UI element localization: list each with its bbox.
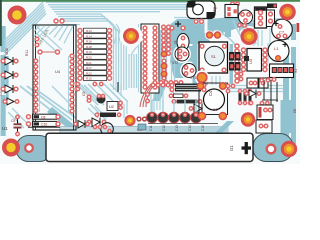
svg-text:C9: C9 xyxy=(82,92,86,96)
svg-text:R11: R11 xyxy=(25,50,29,56)
svg-text:x1: x1 xyxy=(173,40,177,44)
svg-text:R14: R14 xyxy=(86,34,92,38)
svg-text:R13: R13 xyxy=(86,29,92,33)
svg-text:C13: C13 xyxy=(175,125,179,131)
svg-text:VT2: VT2 xyxy=(172,61,178,65)
svg-text:C11: C11 xyxy=(149,125,153,131)
svg-text:R17: R17 xyxy=(86,66,92,70)
svg-text:C6: C6 xyxy=(293,109,297,113)
svg-text:VD8: VD8 xyxy=(5,48,9,55)
svg-text:U4: U4 xyxy=(55,69,61,74)
svg-text:R21: R21 xyxy=(86,61,92,65)
svg-text:R15: R15 xyxy=(86,77,92,81)
svg-text:C4: C4 xyxy=(208,90,213,96)
svg-text:C8: C8 xyxy=(41,115,45,119)
svg-text:R20: R20 xyxy=(86,56,92,60)
svg-text:U1: U1 xyxy=(2,126,8,131)
svg-text:R22: R22 xyxy=(86,71,92,75)
svg-text:VT3: VT3 xyxy=(190,76,196,80)
svg-text:U2: U2 xyxy=(109,105,114,109)
svg-text:R19: R19 xyxy=(86,50,92,54)
svg-text:L1: L1 xyxy=(274,46,279,51)
svg-text:C5: C5 xyxy=(11,119,15,123)
svg-text:D3: D3 xyxy=(213,108,217,112)
svg-text:X1: X1 xyxy=(294,69,298,73)
svg-text:R18: R18 xyxy=(86,45,92,49)
svg-text:G1: G1 xyxy=(229,145,234,151)
svg-text:ZQ: ZQ xyxy=(213,7,217,12)
svg-text:R16: R16 xyxy=(86,40,92,44)
svg-text:C12: C12 xyxy=(162,125,166,131)
svg-text:S1: S1 xyxy=(211,54,217,59)
svg-text:C14: C14 xyxy=(188,125,192,131)
svg-text:C10: C10 xyxy=(41,123,47,127)
svg-text:C15: C15 xyxy=(201,125,205,131)
svg-text:T2: T2 xyxy=(0,92,3,96)
